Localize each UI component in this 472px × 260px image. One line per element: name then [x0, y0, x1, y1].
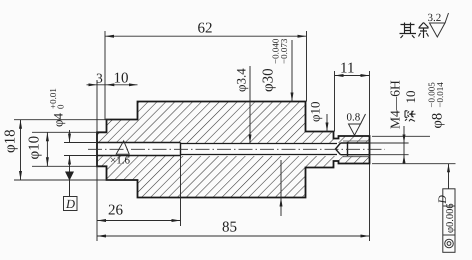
svg-text:3: 3 — [96, 71, 103, 86]
svg-text:D: D — [65, 197, 75, 211]
qiyu (other surfaces) 3.2 — [400, 23, 429, 39]
svg-text:62: 62 — [198, 21, 213, 37]
svg-text:φ3.4: φ3.4 — [234, 68, 249, 92]
dim phi10 right — [326, 114, 328, 132]
dim phi30 with tolerance — [291, 40, 293, 102]
svg-text:φ10: φ10 — [27, 136, 43, 160]
centerline — [88, 148, 385, 150]
svg-text:85: 85 — [222, 220, 237, 236]
M4 thread thin lines — [343, 141, 370, 157]
yu glyph — [419, 23, 429, 39]
roughness 1.6 at hole — [116, 141, 129, 154]
svg-text:φ0.006: φ0.006 — [445, 203, 456, 233]
svg-text:φ4: φ4 — [51, 112, 66, 127]
dim 3 — [87, 80, 138, 132]
svg-text:−0.014: −0.014 — [435, 82, 445, 108]
M4-6H deep10 labels — [372, 126, 456, 164]
svg-text:0: 0 — [56, 104, 66, 109]
dim phi18 — [14, 120, 110, 180]
geometric tolerance frame — [448, 164, 450, 189]
svg-text:11: 11 — [340, 61, 354, 77]
svg-text:φ30: φ30 — [261, 68, 277, 92]
svg-text:φ10: φ10 — [308, 101, 323, 122]
svg-text:10: 10 — [114, 71, 129, 87]
roughness 0.8 — [349, 114, 366, 135]
svg-text:10: 10 — [403, 91, 418, 104]
hatched section lower half — [97, 156, 370, 198]
dim 11 — [335, 71, 370, 136]
svg-text:3.2: 3.2 — [428, 12, 442, 24]
axial hole phi4 — [97, 143, 181, 156]
svg-text:φ18: φ18 — [3, 129, 19, 153]
dim phi4 with tolerance — [64, 130, 97, 197]
tapped hole M4 — [336, 142, 370, 156]
svg-text:0.8: 0.8 — [347, 112, 361, 124]
svg-text:26: 26 — [108, 203, 124, 219]
datum D — [65, 172, 74, 181]
dim phi10 left — [32, 132, 97, 166]
svg-text:−0.073: −0.073 — [279, 38, 289, 64]
dim 26 — [97, 156, 181, 227]
outer contour — [97, 102, 370, 198]
dim phi3.4 — [249, 66, 251, 144]
white band of M4 region — [335, 144, 370, 156]
svg-text:D: D — [437, 195, 449, 205]
svg-text:M4—6H: M4—6H — [388, 80, 403, 129]
svg-text:φ8: φ8 — [430, 113, 446, 129]
axial hole phi3.4 — [181, 144, 338, 155]
dim 85 — [97, 164, 370, 241]
dim 62 — [105, 31, 307, 120]
qi glyph — [400, 23, 417, 39]
hatched section upper half — [97, 102, 370, 144]
svg-text:×1.6: ×1.6 — [110, 155, 130, 167]
